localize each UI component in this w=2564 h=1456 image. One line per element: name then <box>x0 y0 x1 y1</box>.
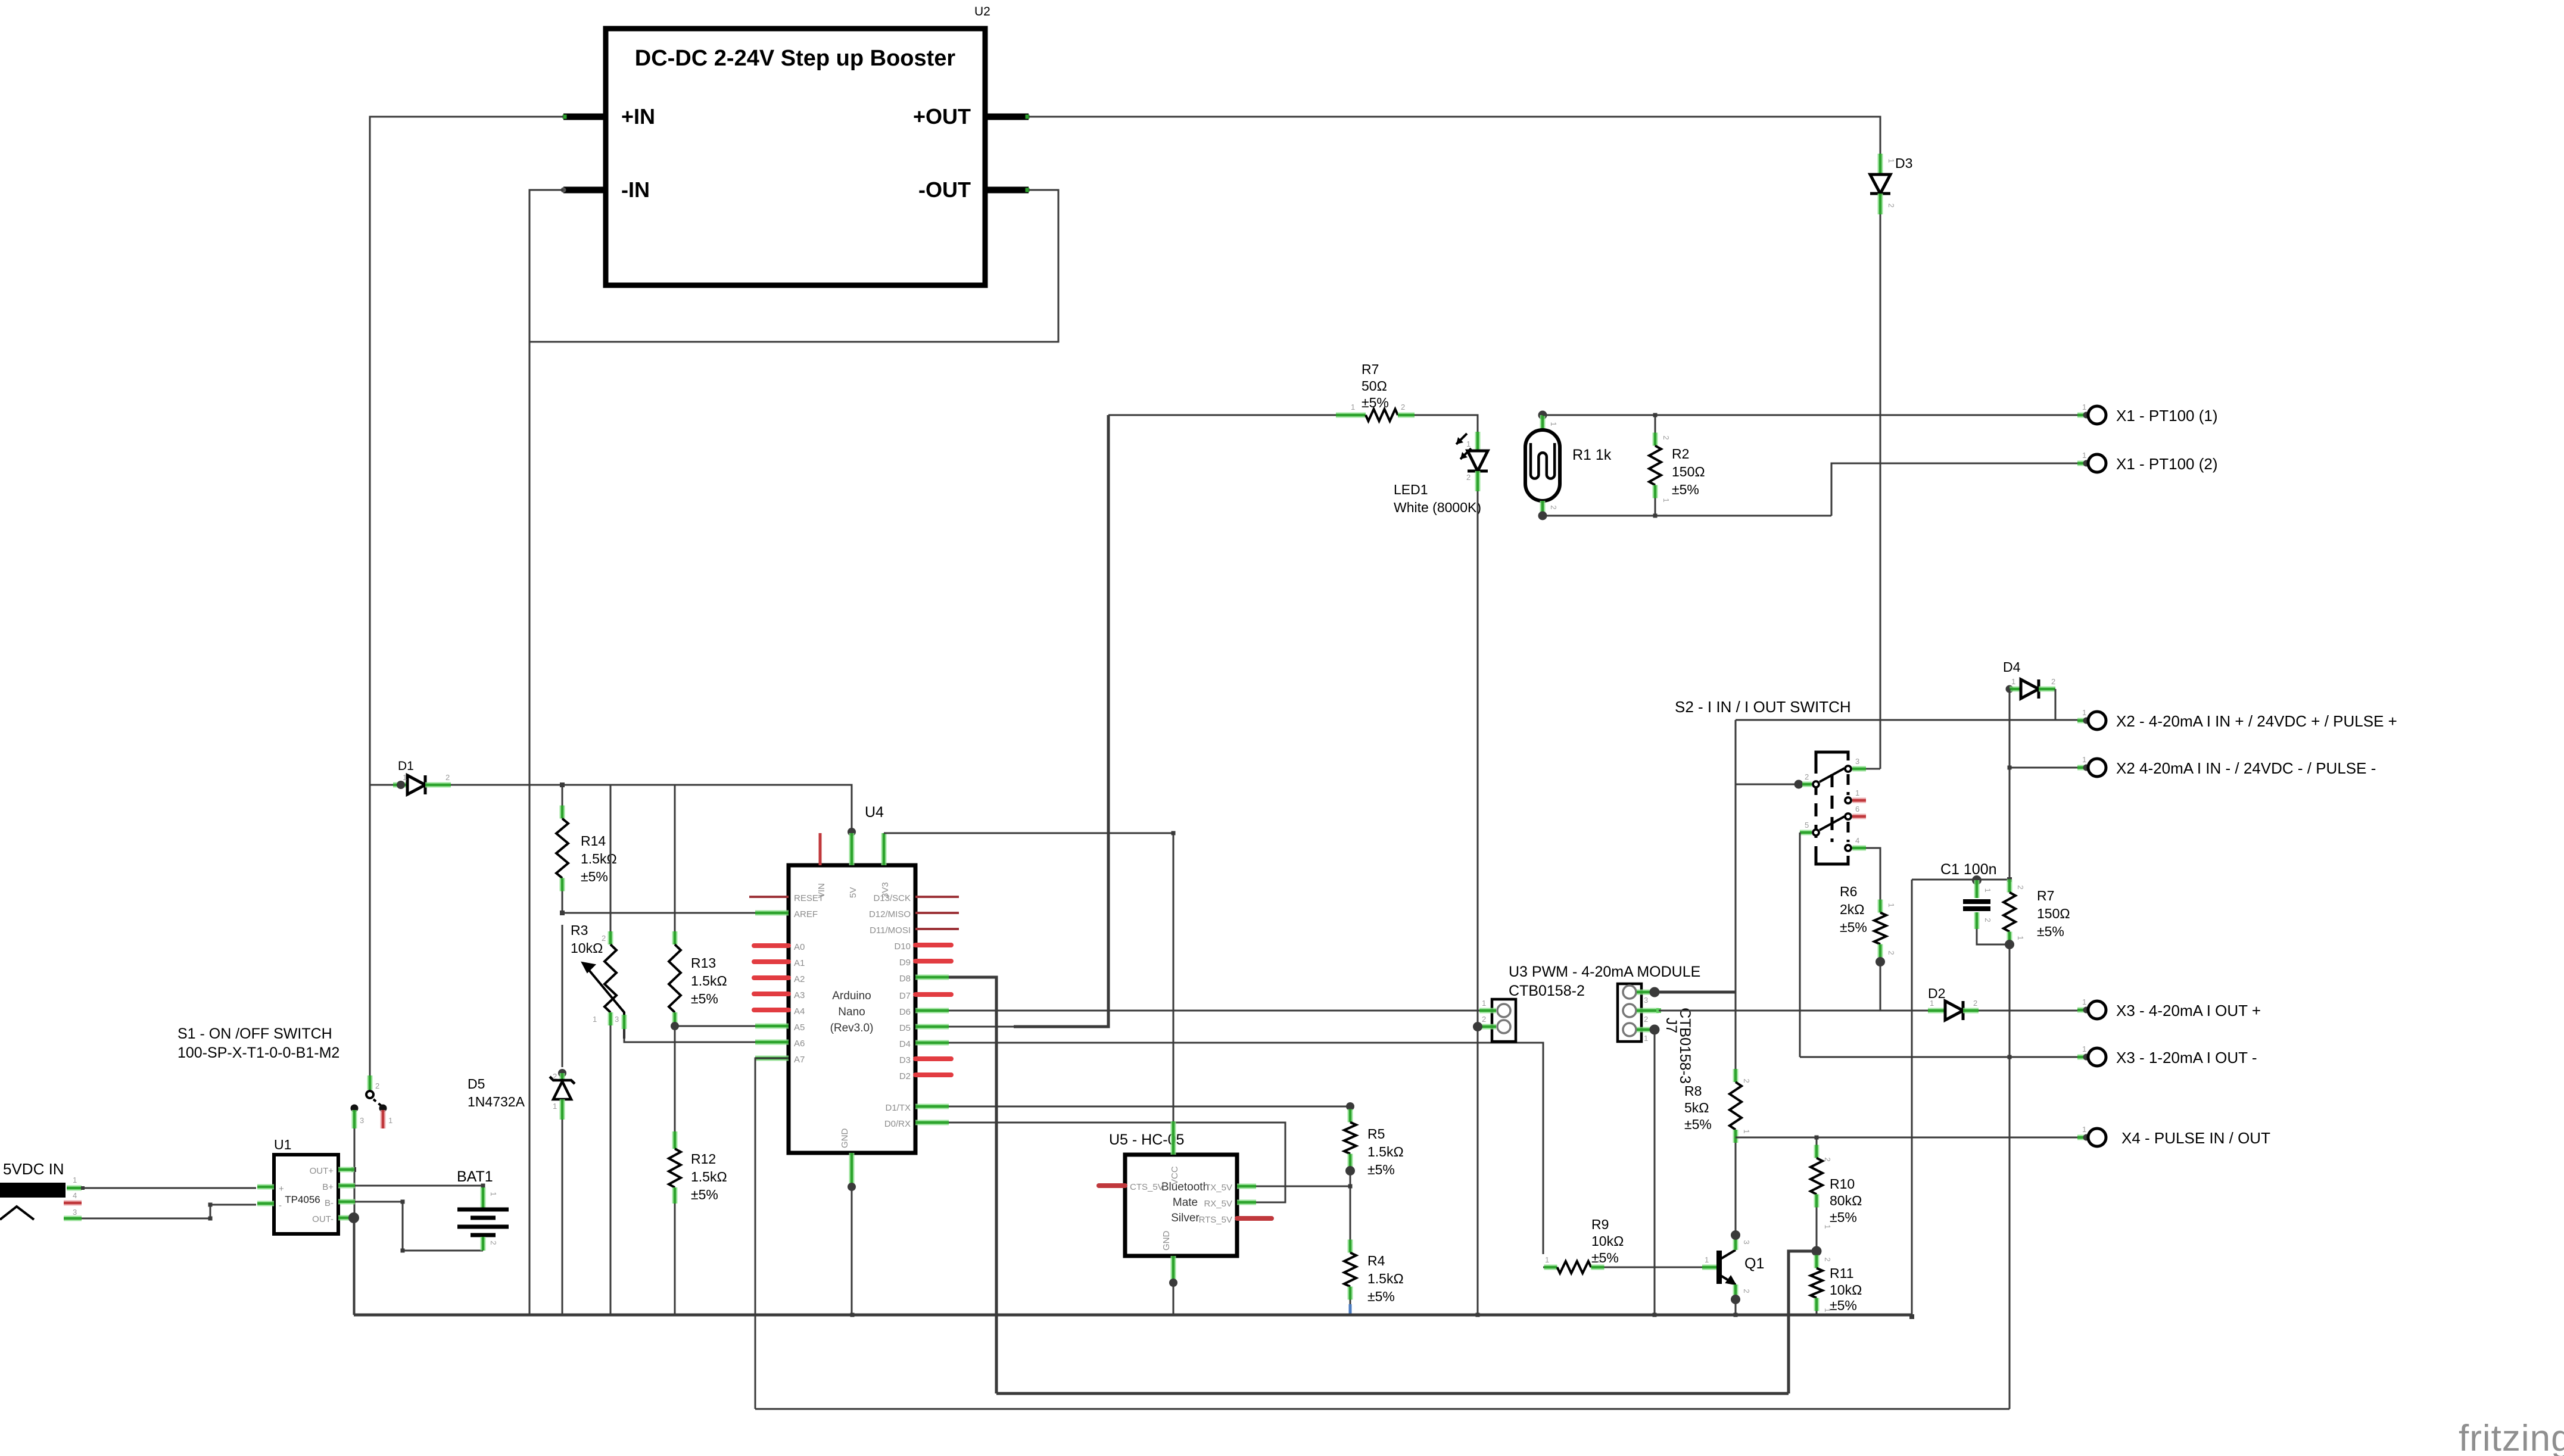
U5 pin RTS_5V (nc) <box>1237 1216 1272 1221</box>
svg-text:1.5kΩ: 1.5kΩ <box>581 851 617 866</box>
svg-text:A6: A6 <box>794 1039 805 1049</box>
U1 pin OUT- leg <box>338 1215 351 1221</box>
wire R6 to PWM row <box>1880 960 1881 1011</box>
svg-text:Bluetooth: Bluetooth <box>1161 1181 1209 1193</box>
svg-text:2: 2 <box>1805 772 1809 781</box>
svg-text:2: 2 <box>1823 1257 1832 1261</box>
svg-text:2: 2 <box>375 1081 379 1090</box>
svg-text:±5%: ±5% <box>1362 395 1389 410</box>
svg-text:D6: D6 <box>899 1007 911 1017</box>
U4 pin D6 <box>915 1008 949 1014</box>
svg-text:DC-DC 2-24V Step up Booster: DC-DC 2-24V Step up Booster <box>635 46 956 71</box>
svg-text:10kΩ: 10kΩ <box>1830 1282 1862 1298</box>
wire D8 to pulse divider <box>949 977 996 1393</box>
svg-text:3: 3 <box>1742 1240 1751 1244</box>
svg-text:1.5kΩ: 1.5kΩ <box>691 1169 727 1184</box>
wire R7 bottom column to below <box>2009 944 2011 1409</box>
svg-text:D2: D2 <box>899 1071 911 1081</box>
svg-text:1: 1 <box>1466 439 1471 448</box>
svg-text:Mate: Mate <box>1173 1196 1198 1209</box>
svg-text:5: 5 <box>1805 821 1809 830</box>
junction S2 pin2 tap <box>1736 784 1796 785</box>
svg-text:D12/MISO: D12/MISO <box>869 909 911 919</box>
svg-text:2: 2 <box>2016 885 2025 889</box>
svg-text:1: 1 <box>489 1192 498 1196</box>
svg-text:Q1: Q1 <box>1744 1255 1764 1272</box>
U4 pin D13/SCK <box>915 896 959 898</box>
wire X1 row2 jog <box>1831 463 2088 516</box>
wire OUT- down to ground bus <box>353 1218 355 1315</box>
junction R2 top <box>1653 413 1658 417</box>
resistor R11 10k <box>1816 1251 1818 1255</box>
Q1 collector leg <box>1733 1237 1739 1250</box>
svg-text:4: 4 <box>1855 836 1859 845</box>
wire D5 to R7 feed <box>949 1026 1014 1028</box>
svg-text:R3: R3 <box>571 922 588 938</box>
svg-text:AREF: AREF <box>794 909 818 919</box>
wire D6 to U3 pin1 <box>949 1010 1491 1012</box>
svg-text:B-: B- <box>325 1198 334 1208</box>
U4 pin VIN <box>819 833 822 865</box>
terminal X1 - PT100 (2) <box>2077 463 2086 464</box>
svg-text:+OUT: +OUT <box>913 104 971 129</box>
svg-text:A1: A1 <box>794 958 805 968</box>
jack pin 1 leg <box>67 1186 82 1191</box>
wire D4 anode to X2- row <box>2009 689 2011 768</box>
svg-text:1.5kΩ: 1.5kΩ <box>691 973 727 989</box>
svg-text:LED1: LED1 <box>1394 482 1428 497</box>
terminal X1 - PT100 (1) <box>2077 414 2086 416</box>
RTD R1 1k (PT100) <box>1538 411 1547 420</box>
svg-text:2: 2 <box>1466 473 1471 482</box>
diode D1 <box>401 784 405 786</box>
U5 pin VCC <box>1171 1121 1176 1155</box>
svg-text:S1 - ON /OFF SWITCH: S1 - ON /OFF SWITCH <box>177 1025 332 1042</box>
wire C1 top row <box>1912 879 2010 881</box>
svg-text:1: 1 <box>2082 403 2086 411</box>
svg-text:TP4056: TP4056 <box>285 1194 320 1205</box>
wire 24V column (S2 common) <box>1735 720 1737 1074</box>
svg-text:A4: A4 <box>794 1006 805 1017</box>
wire Q1 emitter to bus <box>1735 1299 1737 1315</box>
svg-text:R11: R11 <box>1830 1265 1854 1281</box>
U4 pin D10 <box>915 943 951 947</box>
U4 pin GND bottom <box>849 1153 855 1186</box>
svg-text:±5%: ±5% <box>1830 1298 1857 1313</box>
svg-text:±5%: ±5% <box>691 1187 718 1202</box>
junction 5V node <box>848 828 856 836</box>
wire TX_5V to divider <box>1256 1186 1350 1187</box>
terminal X2- 4-20mA I IN <box>2077 767 2086 769</box>
svg-text:2: 2 <box>1644 1015 1648 1024</box>
junction R6 bottom <box>1876 957 1885 966</box>
wire R5-R4 link <box>1350 1171 1351 1235</box>
wire D1 anode from +IN column <box>370 784 393 786</box>
resistor R12 1.5k <box>672 1131 678 1149</box>
wire S1 pin3 to U1 OUT+ and OUT- <box>354 1128 356 1315</box>
svg-text:1: 1 <box>1930 999 1934 1008</box>
switch S1 pin 2 <box>367 1075 373 1090</box>
svg-text:GND: GND <box>1161 1231 1172 1251</box>
svg-text:R12: R12 <box>691 1151 716 1167</box>
bluetooth module U5 HC-05 <box>1125 1155 1237 1256</box>
svg-text:D4: D4 <box>2003 659 2021 675</box>
svg-text:2: 2 <box>1742 1078 1751 1083</box>
svg-text:80kΩ: 80kΩ <box>1830 1193 1862 1208</box>
wire X4 row <box>1736 1137 2088 1139</box>
svg-text:CTS_5V: CTS_5V <box>1130 1182 1164 1192</box>
svg-text:R1 1k: R1 1k <box>1572 447 1612 463</box>
U4 pin D3 <box>915 1056 951 1061</box>
svg-text:D3: D3 <box>899 1055 911 1065</box>
junction R2 bottom <box>1653 514 1658 518</box>
svg-text:1: 1 <box>2082 755 2086 764</box>
svg-text:+IN: +IN <box>621 104 655 129</box>
svg-text:50Ω: 50Ω <box>1362 378 1387 394</box>
potentiometer R3 10k <box>610 785 612 931</box>
svg-text:RTS_5V: RTS_5V <box>1199 1215 1232 1225</box>
battery BAT1 pin 2 leg <box>481 1237 486 1251</box>
wire R9 to Q1 base <box>1605 1267 1702 1268</box>
LED LED1 <box>1475 432 1481 451</box>
svg-text:R6: R6 <box>1840 884 1857 899</box>
resistor R14 1.5k <box>562 785 563 806</box>
svg-text:D1/TX: D1/TX <box>885 1103 911 1113</box>
svg-text:1N4732A: 1N4732A <box>468 1094 525 1109</box>
wire LED1 cathode to ground bus <box>1477 491 1479 1315</box>
svg-text:-IN: -IN <box>621 177 650 202</box>
Q1 emitter leg <box>1733 1284 1739 1298</box>
wire +OUT to D3 <box>1029 117 1880 154</box>
barrel jack body <box>0 1183 66 1198</box>
wire X3- row <box>1800 1056 2088 1058</box>
svg-text:1: 1 <box>1823 1308 1832 1312</box>
zener diode D5 1N4732A <box>558 1069 566 1077</box>
svg-text:1: 1 <box>1855 788 1859 797</box>
wire B- to battery pin2 <box>355 1202 483 1251</box>
U2 pin -IN stub <box>563 187 606 194</box>
svg-text:1: 1 <box>553 1102 557 1111</box>
wire S2 pin4 to R6 <box>1866 848 1880 897</box>
S2 contact pin 3 <box>1845 766 1851 772</box>
svg-text:±5%: ±5% <box>581 869 608 884</box>
svg-text:D11/MOSI: D11/MOSI <box>870 925 911 936</box>
U4 pin A5 <box>755 1024 789 1029</box>
wire D1/TX to R5 <box>949 1106 1350 1108</box>
wire lower link D8 <box>996 1392 1789 1395</box>
svg-text:1: 1 <box>403 773 407 782</box>
svg-text:1.5kΩ: 1.5kΩ <box>1367 1271 1404 1286</box>
jack pin 3 leg <box>64 1216 82 1221</box>
wire +IN to S1 vertical <box>370 117 563 1075</box>
svg-text:C1 100n: C1 100n <box>1940 861 1997 878</box>
svg-text:X3 - 4-20mA I OUT +: X3 - 4-20mA I OUT + <box>2116 1002 2261 1019</box>
U4 pin D1/TX <box>915 1104 949 1109</box>
U4 pin AREF <box>755 911 789 916</box>
U5 pin CTS_5V (nc) <box>1099 1183 1125 1188</box>
wire lower link A7/X3- <box>755 1408 2010 1410</box>
svg-text:±5%: ±5% <box>2037 924 2064 939</box>
ground bus <box>354 1314 1912 1317</box>
svg-text:1: 1 <box>1705 1255 1709 1264</box>
svg-text:X1 - PT100 (2): X1 - PT100 (2) <box>2116 455 2218 473</box>
S2 contact pin 4 <box>1845 845 1851 851</box>
U4 pin 3V3 <box>881 833 887 865</box>
U1 pin OUT+ leg <box>338 1167 354 1173</box>
svg-text:D5: D5 <box>899 1023 911 1033</box>
svg-text:±5%: ±5% <box>1684 1117 1712 1132</box>
svg-text:A0: A0 <box>794 942 805 952</box>
svg-text:BAT1: BAT1 <box>457 1168 493 1185</box>
wire -OUT loop to -IN column <box>529 190 1058 342</box>
svg-text:1: 1 <box>2082 1125 2086 1134</box>
U4 pin A6 <box>755 1040 789 1045</box>
wire jack- to U1 - <box>82 1205 256 1218</box>
svg-text:R14: R14 <box>581 833 606 849</box>
svg-text:2: 2 <box>553 1072 557 1081</box>
U4 pin D2 <box>915 1072 951 1077</box>
U4 pin A7 <box>755 1056 789 1061</box>
wire R13 to R12 <box>674 1026 676 1131</box>
terminal X3- 1-20mA I OUT <box>2077 1056 2086 1058</box>
wire X2+ row <box>1736 719 2088 721</box>
U5 pin GND <box>1171 1256 1176 1282</box>
U1 pin B- leg <box>338 1199 355 1205</box>
Arduino Nano U4 box <box>789 865 915 1153</box>
svg-text:150Ω: 150Ω <box>1672 464 1705 479</box>
svg-text:D1: D1 <box>398 759 414 773</box>
U4 pin D4 <box>915 1040 949 1046</box>
svg-text:Nano: Nano <box>838 1006 865 1018</box>
U3 pin 2 leg <box>1479 1024 1496 1030</box>
J7 pin 3 leg <box>1637 990 1651 995</box>
S2 contact pin 1 <box>1845 797 1851 803</box>
wire R14 bottom to D5 <box>562 925 563 1067</box>
terminal X3+ 4-20mA I OUT <box>2077 1009 2086 1011</box>
svg-text:CTB0158-3: CTB0158-3 <box>1677 1008 1693 1084</box>
S2 contact pin 2 <box>1813 781 1819 787</box>
svg-text:1: 1 <box>1742 1129 1751 1133</box>
svg-text:1: 1 <box>388 1116 392 1125</box>
svg-text:fritzing: fritzing <box>2459 1418 2564 1456</box>
J7 pin 1 leg <box>1637 1027 1651 1033</box>
svg-text:D13/SCK: D13/SCK <box>873 893 911 903</box>
svg-text:1: 1 <box>73 1176 77 1184</box>
wire C1 bottom to R7 bottom <box>1977 929 2010 944</box>
svg-text:2: 2 <box>2051 677 2055 686</box>
wire AREF <box>562 912 789 914</box>
J7 pin 2 leg <box>1637 1008 1659 1014</box>
svg-text:R9: R9 <box>1591 1217 1609 1232</box>
svg-text:1: 1 <box>2082 1045 2086 1053</box>
U4 pin D8 <box>915 975 949 980</box>
U2 pin +OUT stub <box>985 114 1029 120</box>
svg-text:White (8000K): White (8000K) <box>1394 500 1481 515</box>
U4 pin D0/RX <box>915 1120 949 1125</box>
svg-text:2: 2 <box>1973 999 1977 1008</box>
U2 pin +IN stub <box>563 114 606 120</box>
wire jack+ to U1 + <box>82 1187 256 1189</box>
svg-text:A3: A3 <box>794 990 805 1000</box>
svg-text:3: 3 <box>1855 757 1859 766</box>
wire J7 pin1 to ground bus <box>1654 1030 1656 1315</box>
svg-text:(Rev3.0): (Rev3.0) <box>830 1022 874 1034</box>
resistor R7 50 ohm <box>1108 414 1336 416</box>
svg-text:D5: D5 <box>468 1076 485 1092</box>
svg-text:3: 3 <box>1644 996 1648 1005</box>
junction R13/A5 <box>671 1022 679 1030</box>
svg-text:R8: R8 <box>1684 1083 1702 1099</box>
svg-text:3: 3 <box>73 1208 77 1217</box>
wire B+ to battery <box>355 1185 483 1187</box>
wire X1 row1 <box>1543 414 2088 416</box>
svg-text:Arduino: Arduino <box>832 990 871 1002</box>
svg-text:X4 - PULSE IN / OUT: X4 - PULSE IN / OUT <box>2121 1129 2270 1147</box>
switch S1 lever dashed <box>373 1099 384 1108</box>
U1 pin - leg <box>257 1201 274 1206</box>
barrel jack sleeve contact <box>0 1206 34 1220</box>
svg-text:2: 2 <box>1482 1015 1486 1024</box>
svg-text:B+: B+ <box>322 1182 334 1192</box>
switch S1 pin 1 contact <box>379 1105 387 1112</box>
wire -IN link <box>529 190 563 1315</box>
svg-text:A5: A5 <box>794 1022 805 1033</box>
svg-text:2: 2 <box>1662 435 1671 439</box>
svg-text:1: 1 <box>1887 903 1896 907</box>
junction R14 top <box>560 782 565 787</box>
resistor R13 1.5k <box>674 785 676 931</box>
svg-text:RESET: RESET <box>794 893 824 903</box>
svg-text:1: 1 <box>1545 1255 1549 1264</box>
wire X2- column down to R7 <box>2009 768 2011 880</box>
svg-text:D10: D10 <box>894 941 911 952</box>
svg-text:±5%: ±5% <box>1840 919 1867 935</box>
svg-text:X2 - 4-20mA I IN + / 24VDC + /: X2 - 4-20mA I IN + / 24VDC + / PULSE + <box>2116 712 2397 730</box>
resistor R9 10k <box>1543 1267 1544 1268</box>
svg-text:2: 2 <box>1549 505 1558 509</box>
svg-text:R4: R4 <box>1367 1253 1385 1268</box>
svg-text:10kΩ: 10kΩ <box>1591 1233 1624 1249</box>
charger module U1 TP4056 <box>274 1155 338 1234</box>
wire D4 cathode to X2+ row <box>2055 689 2057 720</box>
svg-text:1: 1 <box>2016 936 2025 940</box>
wire D2 to X3+ terminal <box>1979 1010 2088 1012</box>
wire 3V3 to HC-05 VCC <box>884 833 1173 1155</box>
U4 pin 5V <box>849 833 855 865</box>
S2 contact pin 5 <box>1813 830 1819 835</box>
svg-text:Silver: Silver <box>1171 1212 1200 1224</box>
svg-text:±5%: ±5% <box>1367 1289 1395 1304</box>
svg-text:2: 2 <box>1887 950 1896 955</box>
svg-text:S2 - I IN / I OUT SWITCH: S2 - I IN / I OUT SWITCH <box>1675 698 1851 716</box>
wire R4 to bus (blue) <box>1349 1304 1352 1315</box>
wire A7 sense <box>755 1058 789 1409</box>
U2 pin -OUT stub <box>985 187 1029 194</box>
battery BAT1 pin 1 leg <box>481 1187 486 1208</box>
battery BAT1 plates <box>457 1208 509 1212</box>
svg-text:2: 2 <box>1597 1255 1602 1264</box>
U4 pin A4 <box>754 1008 789 1012</box>
wire R7 to LED1 <box>1415 415 1478 432</box>
svg-text:2: 2 <box>445 773 450 782</box>
diode D3 <box>1878 154 1883 174</box>
wire X2- row <box>2010 767 2088 769</box>
svg-text:5V: 5V <box>848 887 858 898</box>
svg-text:X2 4-20mA I IN - / 24VDC - / P: X2 4-20mA I IN - / 24VDC - / PULSE - <box>2116 759 2376 777</box>
svg-text:2: 2 <box>602 934 606 943</box>
svg-text:RX_5V: RX_5V <box>1204 1199 1232 1209</box>
svg-text:5VDC IN: 5VDC IN <box>3 1160 64 1178</box>
svg-text:GND: GND <box>840 1128 850 1149</box>
svg-text:2: 2 <box>1823 1157 1832 1161</box>
U1 pin B+ leg <box>338 1183 355 1189</box>
svg-text:1: 1 <box>1823 1224 1832 1229</box>
wire R1 bottom row <box>1543 515 1831 517</box>
terminal X4 PULSE IN/OUT <box>2077 1137 2086 1139</box>
svg-text:D8: D8 <box>899 974 911 984</box>
svg-text:R13: R13 <box>691 955 716 971</box>
U4 pin A0 <box>754 943 789 948</box>
U4 pin RESET <box>749 896 789 898</box>
svg-text:1: 1 <box>593 1015 597 1024</box>
svg-text:1: 1 <box>1662 498 1671 502</box>
wire D4 to R9 <box>949 1043 1543 1254</box>
svg-text:1: 1 <box>1644 1034 1648 1043</box>
svg-text:R7: R7 <box>1362 361 1379 377</box>
svg-text:±5%: ±5% <box>1830 1209 1857 1225</box>
U4 pin D11/MOSI <box>915 928 959 930</box>
svg-text:±5%: ±5% <box>1367 1162 1395 1177</box>
svg-text:R10: R10 <box>1830 1176 1855 1192</box>
wire A5 <box>675 1025 789 1027</box>
junction U3 pin2 to LED column <box>1473 1022 1482 1031</box>
svg-text:D0/RX: D0/RX <box>884 1119 911 1129</box>
svg-text:2: 2 <box>1887 203 1896 207</box>
svg-text:-OUT: -OUT <box>918 177 971 202</box>
svg-text:X1 - PT100 (1): X1 - PT100 (1) <box>2116 407 2218 425</box>
jack pin 4 leg (nc) <box>64 1201 82 1206</box>
svg-text:±5%: ±5% <box>1672 482 1699 497</box>
svg-text:1: 1 <box>2082 451 2086 460</box>
DC-DC step-up booster module U2 <box>606 29 985 285</box>
svg-text:TX_5V: TX_5V <box>1205 1183 1232 1193</box>
transistor Q1 <box>1702 1265 1718 1270</box>
U4 pin D12/MISO <box>915 912 959 914</box>
resistor R2 150 <box>1655 415 1656 433</box>
svg-text:1: 1 <box>1983 888 1992 892</box>
wire divider tap to D8 loop <box>1789 1251 1817 1393</box>
svg-text:A7: A7 <box>794 1055 805 1065</box>
svg-text:R7: R7 <box>2037 888 2054 903</box>
wire D0/RX to HC-05 TX <box>949 1123 1285 1202</box>
svg-text:R2: R2 <box>1672 446 1689 462</box>
svg-text:1: 1 <box>2082 708 2086 717</box>
svg-text:1: 1 <box>2011 677 2015 686</box>
svg-text:4: 4 <box>73 1191 77 1200</box>
U5 pin TX_5V <box>1237 1184 1256 1189</box>
U4 pin D9 <box>915 959 951 964</box>
resistor R10 80k <box>1816 1137 1818 1145</box>
svg-text:±5%: ±5% <box>691 991 718 1006</box>
svg-text:CTB0158-2: CTB0158-2 <box>1509 983 1585 999</box>
connector J7 CTB0158-3 <box>1618 984 1641 1042</box>
U5 pin RX_5V <box>1237 1200 1256 1205</box>
svg-text:1: 1 <box>1351 403 1355 411</box>
U3 pin 1 leg <box>1479 1008 1496 1014</box>
svg-text:A2: A2 <box>794 974 805 984</box>
wire U5 GND to bus <box>1169 1279 1177 1287</box>
svg-text:10kΩ: 10kΩ <box>571 940 603 956</box>
